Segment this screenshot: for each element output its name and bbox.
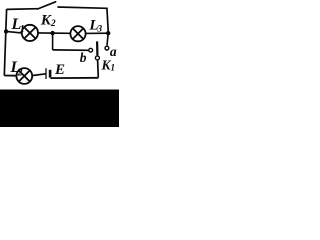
- wire left side: [4, 9, 6, 76]
- wire L3 to right junction: [86, 32, 108, 34]
- svg-text:E: E: [54, 62, 65, 78]
- wire L1 to L3: [38, 32, 70, 34]
- wire top-left segment: [7, 8, 39, 11]
- lamp L1: [22, 25, 38, 41]
- wire L2 to left: [4, 75, 16, 77]
- svg-text:a: a: [110, 44, 117, 59]
- wire below K1 pivot: [97, 60, 100, 78]
- lamp L3: [70, 26, 85, 41]
- node junction middle: [50, 31, 54, 35]
- svg-text:2: 2: [17, 67, 23, 78]
- switch K2 blade: [38, 2, 56, 9]
- switch K1 blade: [96, 41, 99, 55]
- wire top-right segment: [57, 7, 107, 8]
- battery E negative plate: [49, 70, 52, 78]
- wire junction to lamp L1: [6, 31, 21, 33]
- wire battery to lamp L2: [33, 74, 46, 76]
- black censor block: [0, 90, 119, 128]
- wire bottom-right segment: [50, 77, 98, 79]
- switch K1 pivot contact: [95, 56, 99, 60]
- node terminal b: [89, 48, 93, 52]
- wire right to contact a: [107, 33, 108, 45]
- svg-text:b: b: [80, 50, 87, 65]
- lamp L2: [16, 68, 32, 84]
- node terminal a: [105, 46, 109, 50]
- wire junction down: [52, 33, 54, 50]
- svg-text:1: 1: [20, 24, 25, 35]
- wire to terminal b: [53, 49, 89, 51]
- node junction right: [106, 31, 110, 35]
- node junction left: [4, 29, 8, 33]
- battery E positive plate: [45, 68, 47, 79]
- wire right upper: [107, 8, 108, 34]
